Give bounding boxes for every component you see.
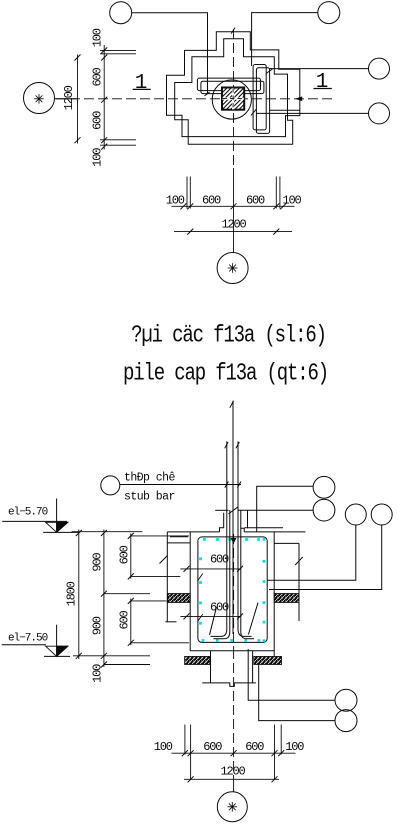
leader A (257, 486, 314, 532)
axis line from left bubble (55, 98, 79, 100)
bar end mark left (225, 442, 228, 448)
slash on right excavation edge (295, 557, 303, 565)
axis bubble bottom with star (217, 253, 248, 284)
column section hatched square (plan) (222, 88, 244, 110)
column stub bar right (237, 441, 239, 629)
inner dimension 600 upper (180, 568, 241, 570)
svg-text:600: 600 (118, 611, 132, 630)
svg-text:1200: 1200 (62, 85, 76, 110)
dowel hook diagonal right (248, 603, 258, 635)
column stub bar center (232, 401, 234, 634)
axis bubble left with star (24, 83, 55, 114)
short ground line below left band (165, 621, 176, 623)
svg-text:100: 100 (282, 193, 301, 207)
rebar cage dots top (203, 538, 206, 541)
horizontal rebar band rect B (plan) (201, 81, 264, 93)
plan bottom dimension line 100/600/600/100 (172, 205, 295, 207)
svg-text:600: 600 (246, 193, 265, 207)
ground step left (167, 542, 190, 544)
soil hatch band left (168, 594, 190, 603)
dimension line 600 upper chain (130, 534, 132, 579)
dowel hook diagonal left (210, 607, 217, 635)
svg-text:100: 100 (91, 148, 105, 167)
svg-text:600: 600 (91, 68, 105, 87)
svg-text:600: 600 (245, 740, 264, 754)
svg-text:el−5.70: el−5.70 (8, 507, 48, 519)
extension lines below plan (186, 177, 188, 209)
lean callout bubble F (335, 710, 357, 732)
extension line cap top left (72, 531, 143, 533)
rebar callout bubble B (313, 499, 335, 521)
vertical rebar band rect B (plan) (256, 68, 269, 134)
extension lines bottom-left pair (100, 139, 136, 141)
level vertical el-5.70 (56, 499, 58, 533)
extension line cap mid left (104, 593, 150, 595)
leader B merging into column break line (238, 509, 314, 511)
leader D (269, 525, 382, 590)
svg-text:stub bar: stub bar (124, 491, 175, 504)
axis bubble bottom of section with star (217, 792, 247, 822)
svg-text:600: 600 (91, 111, 105, 130)
upper ledge line right of column (245, 527, 284, 529)
excavation edge left (166, 532, 168, 622)
rebar cage dots right (263, 538, 266, 541)
level vertical el-7.50 (56, 625, 58, 657)
svg-text:1200: 1200 (220, 765, 245, 779)
section vertical centerline (233, 534, 235, 649)
column dowel foot right outer (238, 629, 252, 636)
column square centerline dashes (222, 98, 243, 100)
grid bubble top-right (318, 2, 340, 24)
leader from top-left bubble (132, 13, 208, 94)
svg-text:100: 100 (166, 193, 185, 207)
leader right-1 (269, 68, 369, 70)
vertical rebar band rect A (plan) (253, 65, 266, 130)
column stub bar left (226, 441, 228, 629)
horizontal centerline of plan (56, 98, 333, 100)
column dowel left inner with foot (214, 510, 230, 639)
pile cap left edge (section) (189, 532, 191, 651)
column square cross split white gap (222, 97, 243, 99)
leader right-2 (256, 112, 369, 114)
centerline top tick (231, 28, 235, 34)
svg-text:600: 600 (210, 601, 229, 615)
leader crossing ticks (225, 482, 229, 488)
dimension line 1800 (78, 530, 80, 660)
leader C (267, 525, 356, 580)
leader F (259, 665, 335, 721)
extension line cap bottom left (73, 655, 150, 657)
level line el-5.70 (2, 520, 67, 522)
column dowel foot left outer (211, 629, 227, 636)
ground and cap top line (167, 531, 219, 533)
rebar cage rounded rect (198, 537, 267, 643)
pile circle (plan) (212, 80, 251, 119)
svg-text:pile cap f13a (qt:6): pile cap f13a (qt:6) (123, 360, 328, 388)
extension lines chain C (131, 535, 189, 537)
ground step line 2 left (170, 536, 188, 538)
soil hatch band right (274, 594, 299, 603)
svg-text:600: 600 (210, 553, 229, 567)
tick at vertical rebar band top-right (266, 69, 273, 74)
level triangle el-7.50 (46, 646, 68, 656)
column right face ledge (241, 528, 244, 532)
svg-text:1: 1 (135, 72, 147, 95)
extension lines below section (184, 725, 186, 755)
pile right edge (252, 651, 254, 683)
inner dimension 600 lower (180, 615, 241, 617)
svg-text:1: 1 (316, 71, 328, 94)
extension lines top-left pair (100, 49, 136, 51)
column break diagonal (229, 507, 238, 514)
svg-text:el−7.50: el−7.50 (8, 632, 48, 644)
tick at vertical rebar band bottom-left (251, 109, 256, 115)
level triangle el-5.70 (46, 522, 68, 532)
svg-text:600: 600 (118, 545, 132, 564)
pile callout bubble E (335, 689, 357, 711)
rebar cage dots bottom (202, 639, 205, 642)
dimension line 600 lower chain (130, 599, 132, 646)
pile bottom break line with notch (202, 683, 256, 687)
dimension line 1200 vertical (77, 55, 79, 144)
rebar callout bubble D (371, 504, 392, 525)
rebar callout bubble C (345, 504, 366, 525)
rebar callout bubble right-2 (369, 103, 390, 124)
leader from top-right bubble (252, 13, 318, 66)
level base line el-5.70 (43, 531, 78, 533)
grid bubble top-left (110, 2, 132, 24)
dimension chain 900/900/100 (103, 530, 105, 668)
slash on left excavation edge (160, 556, 168, 564)
column dowel right inner with foot (241, 510, 254, 639)
bar end mark right (236, 442, 239, 448)
svg-text:100: 100 (91, 28, 105, 47)
column hatch lines (201, 88, 265, 110)
rebar callout bubble A (313, 476, 335, 498)
leader end tick (205, 92, 210, 96)
svg-text:thĐp chê: thĐp chê (124, 472, 175, 485)
svg-text:900: 900 (91, 553, 105, 572)
column left face with ledge (220, 513, 224, 532)
svg-text:100: 100 (154, 740, 173, 754)
column right outer face (247, 511, 249, 529)
lean concrete outline (plan, offset) (175, 39, 293, 145)
svg-text:900: 900 (91, 616, 105, 635)
bar end mark center (230, 401, 234, 408)
pile cap bottom (section) (190, 650, 274, 652)
svg-text:1800: 1800 (65, 581, 79, 606)
lean concrete strip right (254, 656, 282, 664)
column break line left (215, 509, 228, 511)
svg-text:1200: 1200 (221, 218, 246, 232)
svg-text:600: 600 (203, 740, 222, 754)
extra line right of plan (270, 109, 300, 111)
pile cap right edge (section) (273, 532, 275, 656)
dimension chain vertical 100/600/600/100 (103, 45, 105, 150)
pile cap outer outline (plan) (167, 32, 300, 137)
svg-text:600: 600 (202, 193, 221, 207)
lean concrete strip left (185, 656, 210, 664)
level line el-7.50 (2, 644, 46, 646)
rebar cage dots left (199, 557, 202, 560)
axis arrow at cage top (231, 538, 236, 543)
centerline right arrow (296, 97, 302, 101)
leader E (248, 649, 335, 700)
plan bottom dimension line 1200 (174, 231, 292, 233)
rebar callout bubble right-1 (369, 58, 390, 79)
svg-text:100: 100 (91, 664, 105, 683)
section bottom dimension line 100/600/600/100 (172, 752, 296, 754)
extension line lean bottom left (104, 664, 150, 666)
level base line el-7.50 (44, 655, 70, 657)
stub bar label circle (101, 476, 120, 495)
vertical centerline of plan (233, 29, 235, 168)
section bottom dimension line 1200 (184, 778, 279, 780)
excavation edge right (298, 543, 300, 621)
svg-text:100: 100 (285, 740, 304, 754)
pile left edge (210, 651, 212, 683)
horizontal rebar band rect A (plan) (197, 78, 260, 91)
ground step right (274, 542, 299, 544)
svg-text:?µi cäc f13a (sl:6): ?µi cäc f13a (sl:6) (131, 322, 326, 350)
stub bar label leader (120, 484, 241, 486)
